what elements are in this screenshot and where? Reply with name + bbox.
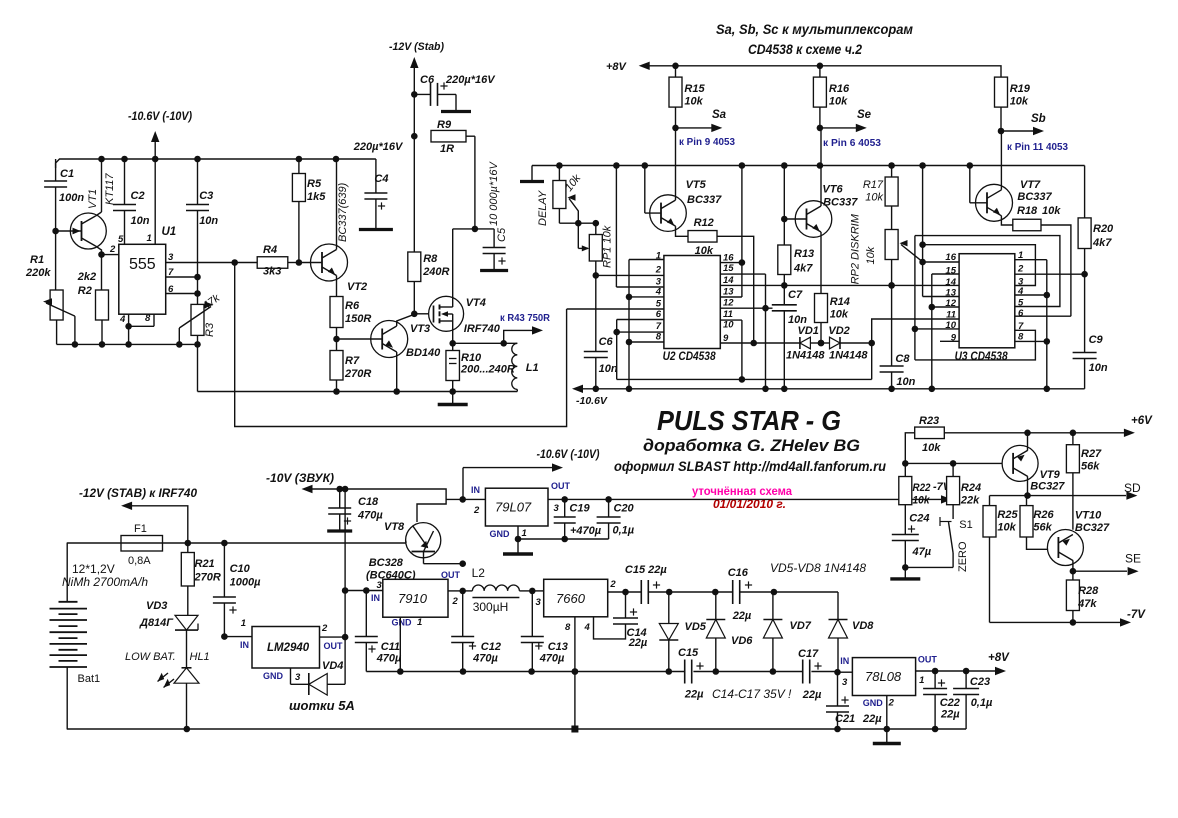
svg-text:C23: C23 [970,676,990,688]
resistor R7 270R [330,351,343,381]
wire 7910 OUT to L2 node [448,590,463,592]
svg-text:RP2 DISKRIM: RP2 DISKRIM [850,213,862,284]
svg-text:4: 4 [584,622,591,633]
resistor R15 10k [675,66,677,77]
svg-text:VD2: VD2 [828,325,849,337]
wire 555 pin6 [166,293,198,295]
switch S1 ZERO [940,521,952,523]
svg-text:3: 3 [554,503,560,514]
resistor R14 10k [815,294,828,323]
svg-text:C7: C7 [788,289,803,301]
IC U1 555 timer [119,244,166,314]
svg-text:555: 555 [129,256,156,273]
svg-text:1N4148: 1N4148 [829,350,868,362]
wire 555 pin2 [102,254,119,256]
IC U2 CD4538 [664,256,720,349]
svg-text:1: 1 [241,618,246,629]
diode VD6 1N4148 [715,592,717,620]
svg-text:10n: 10n [599,363,618,375]
svg-text:3k3: 3k3 [263,266,281,278]
wire 555 pin3 down-right feed (line F) [235,263,567,427]
svg-text:VT3: VT3 [410,323,430,335]
resistor R17 10k [891,166,893,178]
svg-text:22µ: 22µ [862,713,882,725]
svg-text:+8V: +8V [988,652,1010,664]
svg-text:1R: 1R [440,143,454,155]
svg-text:C12: C12 [481,641,501,653]
capacitor C4 220u16V electrolytic [364,192,387,194]
wire U3 pin10 stub riser [915,328,959,330]
capacitor C23 0.1u [965,671,967,689]
svg-text:U2 CD4538: U2 CD4538 [663,351,717,363]
svg-text:Sa: Sa [712,109,727,121]
svg-text:22µ: 22µ [628,637,648,649]
wire -7V row [990,621,1121,623]
wire 79L07 GND row [517,526,519,539]
transistor VT9 BC327 [1002,445,1038,481]
svg-text:доработка G. ZHelev BG: доработка G. ZHelev BG [643,436,860,455]
svg-text:OUT: OUT [918,655,938,665]
svg-text:3: 3 [295,672,301,683]
svg-text:C1: C1 [60,168,74,180]
wire U2 pin6 stub to bus D [617,319,664,321]
svg-text:Д814Г: Д814Г [139,617,174,629]
wire ground rail of 555 block [57,343,198,345]
svg-text:R7: R7 [345,355,360,367]
svg-text:-10.6V: -10.6V [576,395,608,407]
svg-text:22µ: 22µ [802,689,822,701]
wire 555 pin1 to rail [154,159,156,244]
svg-text:SD: SD [1124,481,1141,495]
arrow -10.6V to right [463,467,552,469]
solder pad square [571,726,578,733]
resistor R10 200-240R barretter [449,340,456,347]
wire U2 pin12 stub [720,307,772,309]
svg-text:240R: 240R [422,266,449,278]
svg-text:7660: 7660 [556,591,586,606]
svg-text:3: 3 [842,677,848,688]
svg-text:56k: 56k [1033,522,1052,534]
svg-text:470µ: 470µ [357,510,383,522]
arrow -10V ZVUK [302,485,313,493]
wire top row corner to VD8 [837,592,839,620]
diode VD4 schottky 5A [308,673,310,695]
svg-text:270R: 270R [194,572,221,584]
wire U2 pin1-4-8 bus to rail C [628,260,630,389]
capacitor C9 10n [1073,352,1097,354]
svg-text:C24: C24 [909,513,929,525]
svg-text:GND: GND [392,618,413,628]
svg-text:C6: C6 [420,74,435,86]
svg-text:DELAY: DELAY [537,190,549,226]
svg-text:R8: R8 [423,253,438,265]
wire -10V node to VT8 emitter [340,489,446,522]
resistor R18 10k [1013,219,1041,231]
svg-text:10k: 10k [1042,205,1061,217]
svg-text:5: 5 [656,299,662,310]
svg-text:C15: C15 [678,647,699,659]
svg-text:10 000µ*16V: 10 000µ*16V [488,161,500,226]
svg-text:8: 8 [656,332,662,343]
svg-text:R3: R3 [204,322,216,337]
svg-text:2k2: 2k2 [77,271,96,283]
svg-text:R19: R19 [1010,83,1031,95]
svg-text:10k: 10k [865,192,883,204]
IC LM2940 regulator [224,636,252,638]
svg-text:15: 15 [945,266,956,277]
svg-text:14: 14 [945,277,956,288]
svg-text:OUT: OUT [441,570,461,580]
resistor R26 56k [1026,496,1028,506]
svg-text:2: 2 [321,623,328,634]
wire 555 pin3 output [166,262,258,264]
svg-text:R24: R24 [961,482,981,494]
svg-text:15: 15 [723,263,734,274]
resistor R28 47k [1072,571,1074,580]
svg-text:78L08: 78L08 [865,669,902,684]
svg-text:Sb: Sb [1031,113,1046,125]
arrow up -10.6V [151,131,159,142]
wire +8V rail [639,62,650,70]
capacitor C19 470u [564,499,566,517]
svg-text:IN: IN [371,593,380,603]
capacitor C1 [55,159,57,181]
ground symbol 79L07 [517,539,519,554]
svg-text:10k: 10k [922,442,941,454]
capacitor C24 47u [892,534,919,536]
capacitor C10 1000u [223,543,225,597]
arrow k R43 750R [504,330,532,343]
svg-text:C15 22µ: C15 22µ [625,564,667,576]
wire U2 pin14 line to R13 C7 RP2 U3 pin14 [720,284,959,286]
resistor R24 22k [952,463,954,476]
svg-text:HL1: HL1 [190,651,210,663]
arrow up -12V stab and main column [410,57,418,68]
wire under U3 to pin7 [915,330,1036,360]
svg-text:4: 4 [655,287,662,298]
IC U3 CD4538 [959,254,1015,348]
wire 7910 GND stub [399,617,401,671]
svg-text:5: 5 [118,234,124,245]
svg-text:BC337: BC337 [687,194,722,206]
svg-text:10n: 10n [1089,362,1108,374]
svg-text:10n: 10n [896,376,915,388]
resistor R1 220k variable [50,290,63,320]
svg-text:C5: C5 [496,227,508,242]
svg-text:6: 6 [656,309,662,320]
svg-text:R23: R23 [919,415,939,427]
capacitor C22 22u [934,671,936,689]
svg-text:10n: 10n [199,215,218,227]
wire 78L08 OUT row +8V [916,670,995,672]
svg-text:BC327: BC327 [1075,522,1110,534]
svg-text:VT4: VT4 [466,297,486,309]
capacitor C8 10n [891,285,893,366]
svg-text:VT2: VT2 [347,281,367,293]
svg-text:220k: 220k [25,267,51,279]
svg-text:10k: 10k [684,96,703,108]
svg-text:C4: C4 [374,173,388,185]
wire SE row [1073,570,1127,572]
svg-text:оформил SLBAST http://md4all.f: оформил SLBAST http://md4all.fanforum.ru [614,459,887,474]
wire U3 pin6 stub [1015,315,1071,317]
capacitor C11 470u [365,591,367,637]
resistor R27 56k [1072,433,1074,445]
svg-text:OUT: OUT [551,481,571,491]
svg-text:BC337(639): BC337(639) [337,182,349,242]
svg-text:Bat1: Bat1 [78,673,101,685]
svg-text:VT6: VT6 [822,184,843,196]
transistor VT7 BC337 [969,166,971,203]
svg-text:GND: GND [263,671,284,681]
IC 7660 converter [532,590,543,592]
svg-text:47µ: 47µ [912,546,932,558]
svg-text:270R: 270R [344,368,371,380]
svg-text:C6: C6 [599,336,614,348]
transistor VT10 BC327 [1047,530,1083,566]
svg-text:уточнённая схема: уточнённая схема [692,484,792,498]
svg-text:к R43 750R: к R43 750R [500,312,550,324]
svg-text:R15: R15 [684,83,705,95]
svg-text:1N4148: 1N4148 [786,350,825,362]
svg-text:C18: C18 [358,496,379,508]
svg-text:79L07: 79L07 [495,500,532,515]
transistor VT4 IRF740 mosfet [414,313,428,315]
wire LM2940 OUT [320,636,346,638]
svg-text:470µ: 470µ [539,653,565,665]
svg-text:R1: R1 [30,254,44,266]
wire SD row [990,495,1127,497]
svg-text:4k7: 4k7 [1092,237,1112,249]
svg-text:-12V (Stab): -12V (Stab) [389,41,444,53]
svg-text:22µ: 22µ [732,610,752,622]
svg-text:IRF740: IRF740 [464,323,501,335]
arrow Sa [676,127,713,129]
svg-text:220µ*16V: 220µ*16V [353,141,404,153]
svg-text:10k: 10k [830,309,849,321]
svg-text:22µ: 22µ [940,709,960,721]
svg-text:10k: 10k [829,96,848,108]
svg-text:R25: R25 [997,509,1018,521]
R3 wiper arrow [179,307,211,329]
capacitor C5 10000u16V [483,247,506,249]
svg-text:VT7: VT7 [1020,179,1041,191]
wire U3 pin16 stub and bus [923,261,960,263]
battery Bat1 12x1.2V [66,543,68,602]
diode VD5 1N4148 [668,592,670,624]
svg-text:KT117: KT117 [104,173,116,205]
svg-text:+470µ: +470µ [570,525,602,537]
svg-text:56k: 56k [1081,461,1100,473]
resistor R23 10k [905,433,914,464]
resistor R2 2k2 [98,251,105,258]
diode VD2 1N4148 [818,340,825,347]
capacitor C6 220u16V [414,93,430,95]
svg-text:L2: L2 [472,566,486,580]
svg-text:+6V: +6V [1131,415,1153,427]
wire U3 pin8 stub [1015,340,1047,342]
svg-text:R17: R17 [863,179,884,191]
inductor L2 300uH [463,590,473,592]
potentiometer RP2 DISKRIM 10k [885,230,898,260]
resistor R12 10k [688,231,717,243]
svg-text:C14-C17 35V !: C14-C17 35V ! [712,687,792,701]
svg-text:1k5: 1k5 [307,191,326,203]
wire node C5 top [453,228,494,230]
svg-text:16: 16 [723,253,734,264]
transistor VT2 BC337 [299,262,322,264]
svg-text:C9: C9 [1089,334,1104,346]
resistor R5 1k5 [298,159,300,174]
svg-text:R2: R2 [78,285,92,297]
transistor VT3 BD140 [337,338,383,340]
ground symbol under R10 [452,392,454,405]
wire LM2940 GND stub [290,668,292,684]
svg-text:C16: C16 [728,567,749,579]
svg-text:R12: R12 [694,217,714,229]
wire 555 pin7 [166,276,198,278]
svg-text:шотки 5А: шотки 5А [289,698,355,713]
svg-text:C22: C22 [940,697,960,709]
svg-text:2: 2 [888,698,895,709]
wire U2 pin16 stub [720,262,742,264]
svg-text:VT5: VT5 [686,179,707,191]
wire U3 pin2 stub [1015,273,1085,275]
svg-text:Sa, Sb, Sc к мультиплексорам: Sa, Sb, Sc к мультиплексорам [716,22,913,37]
wire 7660 pin8 to ground G [574,617,576,729]
IC 7910 regulator [345,590,383,592]
svg-text:R28: R28 [1078,585,1099,597]
svg-text:VD4: VD4 [322,660,343,672]
svg-text:R14: R14 [830,296,850,308]
resistor R20 4k7 [1084,166,1086,218]
svg-text:200...240R: 200...240R [460,364,515,376]
svg-text:13: 13 [723,287,734,298]
svg-text:OUT: OUT [324,641,344,651]
svg-text:R6: R6 [345,300,360,312]
transistor VT8 BC328 [406,523,441,558]
svg-text:10: 10 [723,320,734,331]
svg-text:47k: 47k [1077,598,1097,610]
wire U2 pin13 stub [720,296,742,298]
svg-text:10k: 10k [997,522,1016,534]
potentiometer RP1 10k [595,223,597,234]
resistor R8 240R [408,252,421,282]
capacitor C20 0.1u [608,499,610,517]
resistor R22 10k [904,463,906,476]
resistor R3 47k trimmer [191,304,204,335]
svg-text:VD3: VD3 [146,600,167,612]
svg-text:-10.6V (-10V): -10.6V (-10V) [537,449,600,461]
wire U3 pin1 stub and bus [1015,259,1047,261]
svg-text:470µ: 470µ [472,653,498,665]
R1 wiper arrow [46,303,75,316]
svg-text:10k: 10k [1010,96,1029,108]
svg-text:VT1: VT1 [87,189,99,209]
svg-text:22k: 22k [960,495,980,507]
svg-text:к Pin 11 4053: к Pin 11 4053 [1007,141,1068,153]
svg-text:7: 7 [656,321,662,332]
capacitor C2 [124,159,126,205]
wire U2 pin8 stub [629,341,664,343]
svg-text:VD6: VD6 [731,635,753,647]
fuse F1 0.8A [67,542,121,544]
svg-text:2: 2 [109,244,116,255]
svg-text:300µH: 300µH [473,600,509,614]
wire U2 pin4 stub [629,296,664,298]
svg-text:CD4538 к схеме ч.2: CD4538 к схеме ч.2 [748,42,862,57]
wire U2 pin3 stub to rail B [616,286,664,288]
svg-text:BC328: BC328 [369,557,404,569]
svg-text:VT10: VT10 [1075,510,1102,522]
svg-text:C8: C8 [895,353,910,365]
svg-text:S1: S1 [959,519,972,531]
svg-text:R5: R5 [307,178,322,190]
svg-text:BC337: BC337 [1017,191,1052,203]
svg-text:-12V (STAB) к IRF740: -12V (STAB) к IRF740 [79,488,198,500]
inductor L1 [512,343,518,389]
wire bus D riser to U3 pin11 [872,319,959,379]
wire VT8 collector to L2 node [424,563,463,565]
wire U3 pin5 line [915,236,1060,307]
svg-text:IN: IN [471,485,480,495]
transistor VT5 BC337 [644,166,646,214]
wire U2 pin16-13 bus from rail B [741,166,743,298]
svg-text:10k: 10k [865,246,877,264]
capacitor C6b 10n [584,351,608,353]
svg-text:IN: IN [240,640,249,650]
svg-text:U3 CD4538: U3 CD4538 [955,351,1009,363]
diode VD1 1N4148 [799,337,801,349]
arrow Sb [1001,130,1033,132]
resistor R16 10k [819,66,821,77]
wire U2 pin15 stub and bus [720,273,765,275]
svg-text:C20: C20 [614,503,635,515]
svg-text:0,1µ: 0,1µ [971,697,993,709]
capacitor C13 470u [531,591,533,637]
svg-text:12*1,2V: 12*1,2V [72,562,115,576]
svg-text:PULS STAR - G: PULS STAR - G [657,405,841,436]
svg-text:к Pin 6 4053: к Pin 6 4053 [823,137,881,149]
svg-text:1: 1 [147,233,152,244]
svg-text:VT8: VT8 [384,521,405,533]
svg-text:12: 12 [723,298,734,309]
IC 79L07 regulator [485,488,548,526]
wire U3 pin13 stub [923,296,960,298]
svg-text:1: 1 [919,675,924,686]
svg-text:4k7: 4k7 [793,263,813,275]
resistor R19 10k [995,77,1008,107]
svg-text:0,8A: 0,8A [128,555,151,567]
zener diode VD3 D814G [187,586,189,615]
svg-text:0,1µ: 0,1µ [613,525,635,537]
wire VD4 riser to -10V node [344,489,346,684]
wire 7660 OUT row [608,591,642,593]
wire top row to C16 [712,589,719,596]
arrow -12V STAB [121,502,132,510]
wire 7660 pin4 to C14 [594,617,626,639]
svg-text:LOW BAT.: LOW BAT. [125,651,176,663]
capacitor C14 22u [625,592,627,618]
svg-text:-10.6V (-10V): -10.6V (-10V) [128,111,192,123]
svg-text:1: 1 [522,528,527,539]
svg-text:GND: GND [863,698,884,708]
svg-text:C11: C11 [381,641,400,653]
wire 79L07 OUT row -7V [548,498,941,500]
diode VD8 1N4148 [829,619,848,621]
terminator bar rail B left [531,166,533,181]
svg-text:150R: 150R [345,313,371,325]
